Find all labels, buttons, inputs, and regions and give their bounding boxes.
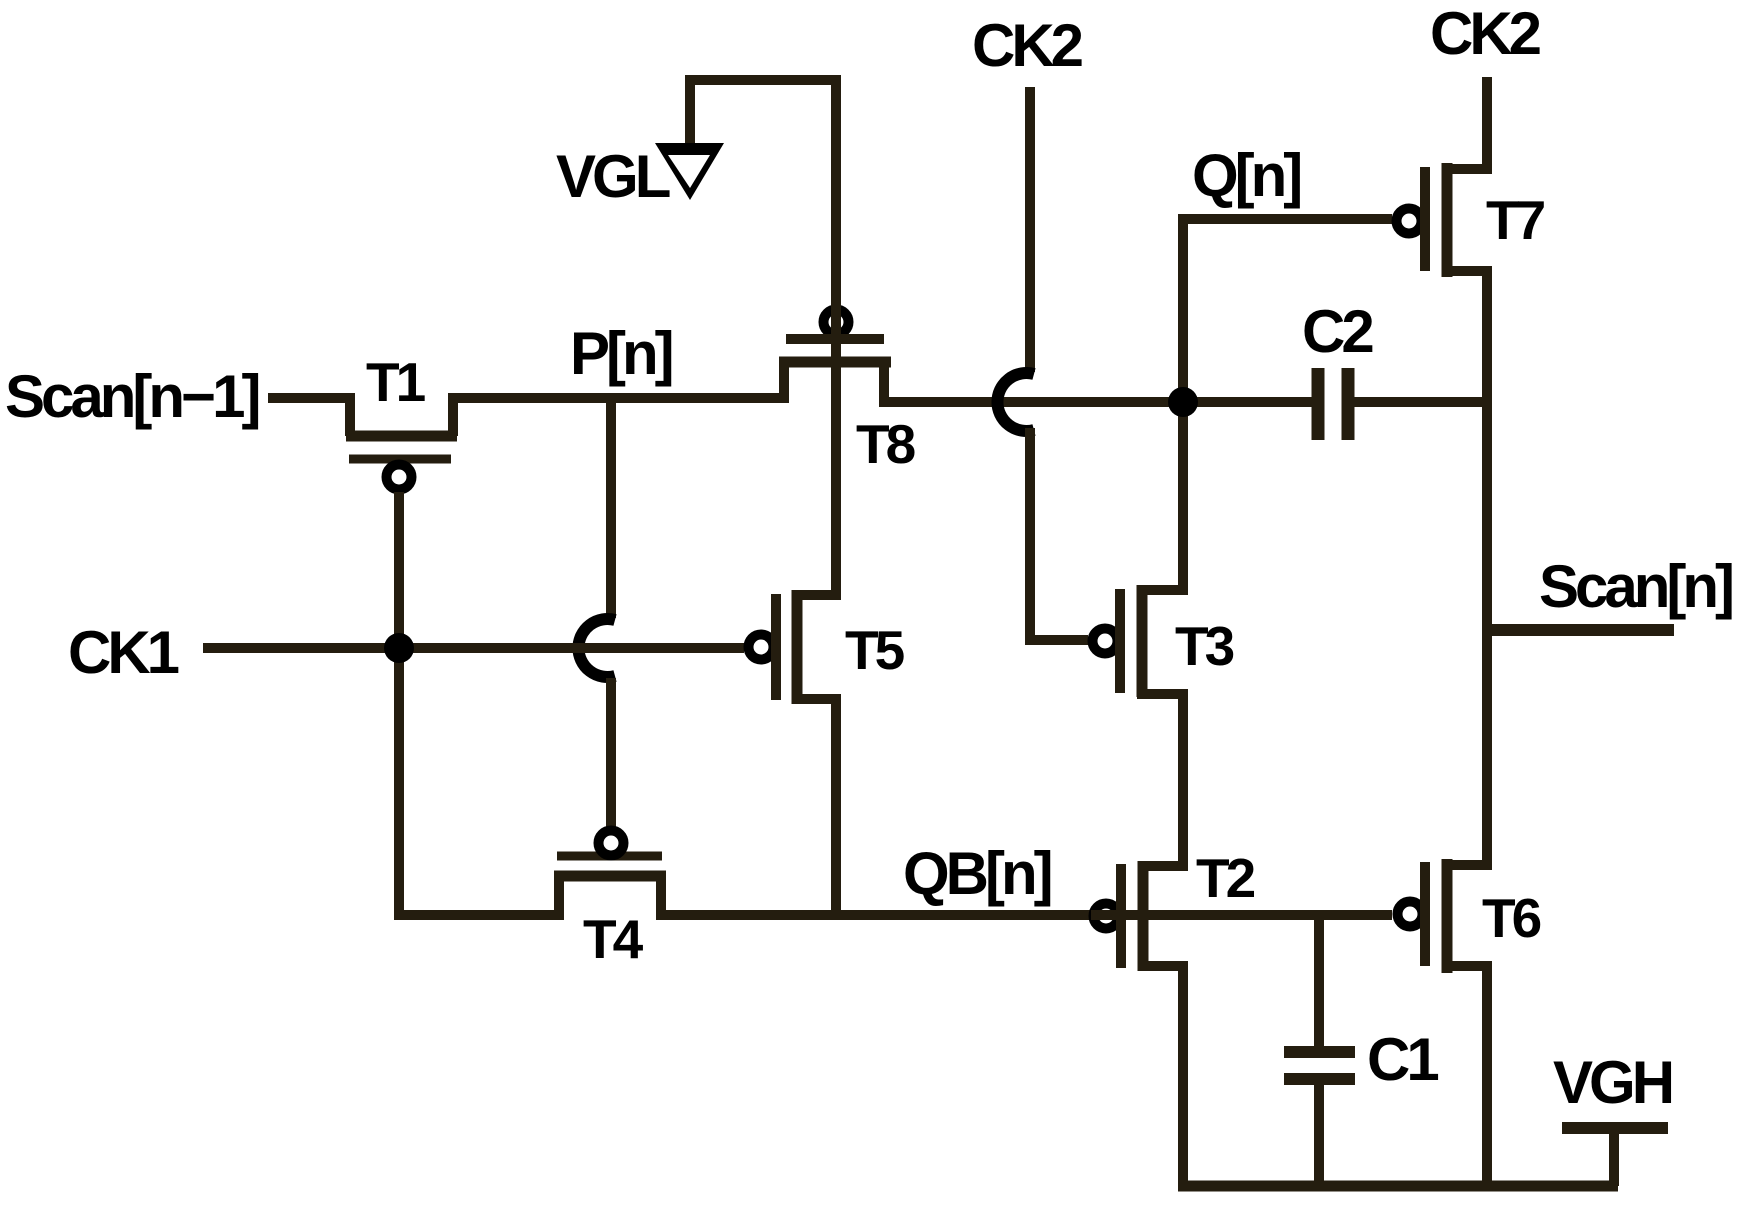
svg-text:CK2: CK2 [972,12,1082,79]
transistor T2 [1094,861,1144,971]
wire QB[n] segment through T2 symbol [1091,910,1392,920]
svg-text:VGL: VGL [556,143,670,210]
svg-text:Q[n]: Q[n] [1192,142,1300,209]
svg-text:P[n]: P[n] [570,320,672,387]
svg-text:T5: T5 [845,619,905,681]
wire VGL branch: top wire with corner [690,80,841,147]
wire node Q[n] up-and-over to T7 gate [1183,219,1392,406]
transistor T5 [749,590,798,704]
node junction dot Q-node [1168,387,1198,417]
svg-text:T8: T8 [856,413,915,475]
wire node QB[n]: T4 right terminal to T6 gate [661,874,1392,915]
svg-text:CK1: CK1 [68,619,179,686]
transistor T4 [554,831,666,877]
wire T3 drain step up to node junction [1137,400,1183,590]
wire T7 source step and main vertical down to T6 drain [1443,271,1487,865]
svg-text:Scan[n−1]: Scan[n−1] [5,363,258,430]
wire C1 lower lead to bottom rail [1314,1085,1324,1186]
wire P[n] drop upper segment [606,398,616,618]
wire T2 source step down to bottom rail [1138,966,1183,1186]
svg-text:T2: T2 [1196,847,1255,909]
capacitor C1 [1284,1052,1355,1079]
svg-text:T1: T1 [366,351,426,413]
svg-text:C2: C2 [1302,298,1372,365]
power symbol VGL (triangle) [655,143,724,200]
svg-text:Scan[n]: Scan[n] [1539,553,1732,620]
svg-text:T4: T4 [583,908,644,970]
wire hop of P[n] drop over CK1 [578,619,615,677]
wire Scan[n-1] lead into T1 left terminal [268,398,350,436]
wire VGH lead to bottom rail [1609,1128,1619,1186]
wire C2 right plate to Scan[n] vertical [1354,397,1487,407]
svg-text:T7: T7 [1486,189,1545,251]
capacitor C2 [1318,368,1348,440]
wire bottom rail [1178,1181,1618,1192]
svg-text:T3: T3 [1175,615,1234,677]
node junction dot CK1/T1-gate [384,633,414,663]
svg-text:CK2: CK2 [1430,0,1540,67]
wire T5 source step down to QB wire [797,699,836,915]
wire Scan[n] output stub [1487,624,1674,636]
power symbol VGH (bar) [1562,1122,1668,1134]
svg-text:C1: C1 [1367,1026,1438,1093]
wire T8 left terminal step (to P[n]) [779,360,789,398]
wire T6 source step down to bottom rail [1443,966,1487,1186]
svg-text:T6: T6 [1482,887,1541,949]
wire CK2 lower segment to T3 gate [1030,428,1088,640]
wire node P[n]: T1 right terminal to T8 left terminal [453,360,784,436]
wire T8 right terminal to C2 left plate (node Q) [884,360,1312,402]
wire C1 upper lead from QB wire [1314,915,1324,1048]
transistor T6 [1398,859,1448,973]
wire T2 drain step up to T3 source [1137,694,1183,866]
svg-text:VGH: VGH [1553,1049,1672,1116]
wire VGL/T8-gate vertical down to T5 drain step [797,75,836,595]
wire CK1 [203,643,744,653]
transistor T8 [779,310,891,363]
transistor T1 [346,436,457,490]
transistor T7 [1397,163,1448,277]
wire hop of CK2 over node wire [997,373,1034,431]
wire CK2 upper segment (middle) [1025,87,1035,372]
wire T1 gate line down through CK1 junction to T4 left terminal [399,492,559,915]
transistor T3 [1093,585,1143,697]
wire P[n] drop lower segment to T4 gate [606,678,616,828]
wire CK2 right lead into T7 drain [1443,77,1487,169]
svg-text:QB[n]: QB[n] [903,840,1051,907]
